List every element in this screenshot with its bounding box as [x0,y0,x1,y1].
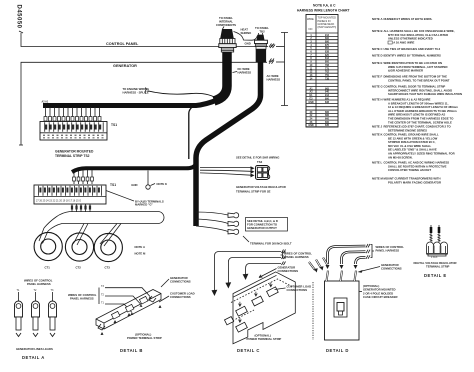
svg-text:TS1: TS1 [110,183,116,187]
svg-text:TERMINAL STRIP FOR SE: TERMINAL STRIP FOR SE [236,190,271,194]
svg-text:D45050: D45050 [16,5,22,29]
svg-text:CONNECTIONS: CONNECTIONS [381,267,402,271]
svg-text:NUMBER ET WIRES AT BOTH ENDS.: NUMBER ET WIRES AT BOTH ENDS. [384,17,433,21]
svg-text:CONVOLUTED TUBING JACKET: CONVOLUTED TUBING JACKET [388,168,431,172]
svg-text:HARNESS: HARNESS [267,77,281,81]
svg-text:GND: GND [245,42,251,46]
svg-text:NOTE L: NOTE L [372,161,383,165]
svg-text:MARKED "G": MARKED "G" [135,203,154,207]
svg-text:NOTE H: NOTE H [372,98,383,102]
svg-text:CONNECTIONS: CONNECTIONS [170,295,191,299]
svg-text:GENERATOR OUTPUT: GENERATOR OUTPUT [247,226,277,230]
svg-text:NOTE A: NOTE A [372,17,382,21]
svg-text:POWER TERMINAL STRIP: POWER TERMINAL STRIP [247,337,282,341]
svg-text:HARNESS WIRE LENGTH CHART: HARNESS WIRE LENGTH CHART [297,9,350,13]
svg-text:POWER TERMINAL STRIP: POWER TERMINAL STRIP [127,336,162,340]
svg-text:NO: NO [309,27,313,31]
svg-text:CT1: CT1 [45,266,51,270]
svg-text:DETAIL C: DETAIL C [237,348,260,353]
svg-text:COMPONENTS: COMPONENTS [216,23,236,27]
svg-text:CASE CIRCUIT BREAKER: CASE CIRCUIT BREAKER [363,295,398,299]
svg-text:NOTE M: NOTE M [372,177,384,181]
svg-text:PANEL HARNESS: PANEL HARNESS [376,249,400,253]
svg-text:GND: GND [308,101,314,104]
svg-text:CT2: CT2 [76,266,82,270]
svg-text:NOTE C: NOTE C [372,47,383,51]
svg-text:DETAIL E: DETAIL E [424,273,447,278]
svg-text:GENERATOR VOLTAGE REGULATOR: GENERATOR VOLTAGE REGULATOR [236,185,286,189]
svg-text:CONNECTIONS: CONNECTIONS [278,269,299,273]
svg-text:SHARP EDGES THAT MAY DAMAGE WI: SHARP EDGES THAT MAY DAMAGE WIRE INSULAT… [388,92,462,96]
svg-text:CONNECTIONS: CONNECTIONS [170,280,191,284]
svg-text:TERMINAL STRIP: TERMINAL STRIP [426,265,450,269]
svg-text:GENERATOR MOUNTED: GENERATOR MOUNTED [55,150,94,154]
svg-text:TERMINAL STRIP TS2: TERMINAL STRIP TS2 [55,154,90,158]
svg-text:838: 838 [325,101,330,104]
svg-text:IDENTIFY WIRES BY TERMINAL NUM: IDENTIFY WIRES BY TERMINAL NUMBERS [384,54,441,58]
svg-text:635: 635 [325,124,330,127]
svg-text:GENERATOR LINES LEADS: GENERATOR LINES LEADS [16,347,53,351]
svg-text:CT3: CT3 [105,266,111,270]
svg-text:NOTE K: NOTE K [372,133,383,137]
svg-text:GND: GND [308,124,314,127]
svg-text:DETAIL D: DETAIL D [326,348,349,353]
svg-text:TS1: TS1 [111,123,117,127]
svg-text:GENERATOR: GENERATOR [113,64,137,68]
svg-text:NOTE E: NOTE E [372,61,383,65]
svg-text:CONTROL PANEL TO THE BREAK OUT: CONTROL PANEL TO THE BREAK OUT POINT [388,78,450,82]
svg-text:AN M5-08 SCREW.: AN M5-08 SCREW. [388,155,413,159]
svg-text:A2 A1: A2 A1 [42,101,49,104]
svg-text:NOTE M: NOTE M [135,252,147,256]
svg-text:F 3C3: F 3C3 [431,257,438,259]
svg-text:POLARITY MARK FACING GENERATOR: POLARITY MARK FACING GENERATOR [388,180,441,184]
svg-text:TB2: TB2 [259,29,265,33]
svg-text:PANEL HARNESS: PANEL HARNESS [27,282,51,286]
svg-text:CONNECTIONS: CONNECTIONS [287,288,308,292]
svg-text:A 16 AWG WIRE: A 16 AWG WIRE [393,40,414,44]
svg-text:NOTE G: NOTE G [372,85,383,89]
svg-text:NOTE A: NOTE A [135,245,145,249]
svg-text:NOTE F: NOTE F [372,75,383,79]
svg-text:NOTE D: NOTE D [372,54,383,58]
svg-text:HARNESS: HARNESS [238,70,252,74]
svg-text:SHRINK: SHRINK [241,31,252,35]
svg-text:CONTROL PANEL: CONTROL PANEL [106,42,139,46]
svg-text:27 26 25 24 23 22 21 20 19 18: 27 26 25 24 23 22 21 20 19 18 17 16 15 G [36,200,81,203]
svg-text:738: 738 [325,77,330,80]
svg-text:PANEL HARNESS: PANEL HARNESS [70,297,94,301]
svg-text:NOTE F,A, & C: NOTE F,A, & C [313,4,336,8]
svg-text:PANEL HARNESS: PANEL HARNESS [285,255,309,259]
svg-text:GND: GND [131,183,137,187]
svg-text:&/OR ADHESIVE MARKER: &/OR ADHESIVE MARKER [388,69,423,73]
svg-text:NOTE J: NOTE J [372,125,383,129]
svg-text:DETAIL B: DETAIL B [120,348,143,353]
svg-text:TS3: TS3 [257,160,263,164]
svg-text:(INCH LENGTH): (INCH LENGTH) [318,26,337,29]
svg-text:NOTE K: NOTE K [157,182,168,186]
svg-text:DETAIL A: DETAIL A [22,355,45,360]
svg-text:TERMINAL FOR 3/8 INCH BOLT: TERMINAL FOR 3/8 INCH BOLT [250,242,292,246]
svg-text:USE TIES AT BRANCHES AND EVERY: USE TIES AT BRANCHES AND EVERY 76.2 [384,47,441,51]
svg-text:NOTE B: NOTE B [372,29,383,33]
svg-text:WIRE: WIRE [307,17,314,21]
